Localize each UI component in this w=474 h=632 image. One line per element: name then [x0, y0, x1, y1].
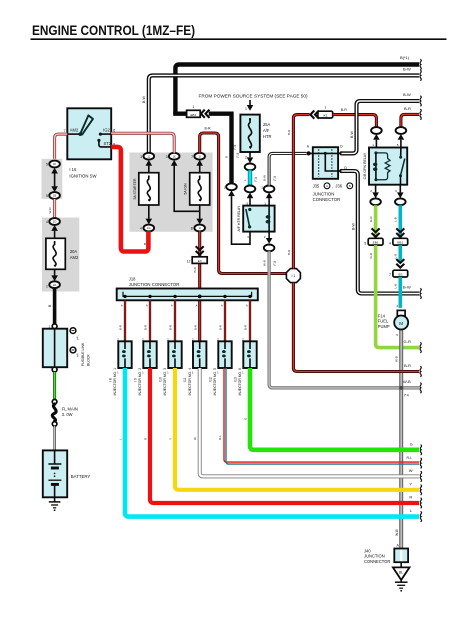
svg-text:R-L: R-L [407, 456, 413, 460]
svg-text:L-B: L-B [394, 217, 398, 222]
svg-text:A: A [196, 304, 198, 308]
gray harness box left upper [42, 159, 63, 199]
svg-text:L-B: L-B [394, 284, 398, 289]
svg-text:B-R: B-R [193, 325, 197, 330]
svg-text:1: 1 [245, 107, 247, 111]
svg-text:5: 5 [396, 333, 398, 337]
svg-text:AM2: AM2 [70, 127, 79, 132]
svg-text:(*1): (*1) [273, 261, 277, 266]
ground below battery [49, 497, 61, 511]
labels J35 J36 junction connector [313, 183, 353, 202]
svg-text:2: 2 [245, 156, 247, 160]
svg-text:B-W: B-W [403, 92, 411, 97]
svg-text:5A STARTER: 5A STARTER [133, 178, 137, 200]
wire B-R drop to injector No.4 [192, 304, 198, 342]
svg-text:2D: 2D [53, 220, 57, 224]
injector No.4 (I11) [183, 341, 206, 395]
junction connector J18 bus bar [117, 289, 258, 301]
svg-text:1: 1 [264, 202, 266, 206]
svg-text:FROM POWER SOURCE SYSTEM (SEE: FROM POWER SOURCE SYSTEM (SEE PAGE 50) [199, 94, 308, 99]
svg-text:W: W [409, 468, 413, 473]
svg-text:IG2: IG2 [103, 128, 110, 133]
svg-text:L-B: L-B [394, 254, 398, 259]
svg-text:W-B: W-B [403, 379, 411, 384]
wire B-R from 5A IGN bottom through E3 to J18 and injector 4 [193, 231, 204, 341]
svg-text:I 9: I 9 [133, 378, 137, 382]
relay C/B OPN RELAY [363, 148, 407, 185]
wire W-R from AM2 to left column [55, 134, 68, 161]
svg-text:IK1: IK1 [323, 114, 328, 118]
title ENGINE CONTROL (1MZ-FE) [31, 23, 447, 39]
wire B-W from power source to right edge and down to 5A STARTER fuse [142, 66, 421, 153]
svg-text:8: 8 [191, 227, 193, 231]
svg-text:B(*1): B(*1) [400, 55, 410, 60]
connector 8 (5A IGN bottom) [191, 219, 205, 232]
ground triangle BL [393, 562, 410, 591]
svg-text:EB1: EB1 [373, 241, 379, 245]
wire B thick to fusible link block [48, 288, 54, 324]
connector 1K [46, 161, 60, 174]
svg-text:(*1): (*1) [273, 176, 277, 181]
wire B-R main vertical from IK1 corner to I1 [287, 115, 310, 269]
svg-text:C/B OPN RELAY: C/B OPN RELAY [363, 152, 367, 179]
wire thick B from EB1 left segment [175, 112, 187, 114]
svg-text:EB1: EB1 [190, 113, 196, 117]
fuse 5A STARTER [133, 166, 159, 219]
svg-text:B-R: B-R [205, 127, 212, 131]
wire B-W from J35/J36 down to right edge [341, 171, 421, 299]
wire to battery [53, 426, 55, 450]
svg-text:Y: Y [409, 481, 412, 486]
injector No.5 (I12) [208, 341, 231, 395]
fusible link FL MAIN 3.0W [52, 399, 78, 426]
svg-text:B-R: B-R [119, 325, 123, 330]
svg-text:ST2: ST2 [103, 141, 111, 146]
svg-text:3. 0W: 3. 0W [62, 412, 73, 417]
svg-text:B-W: B-W [350, 131, 354, 139]
svg-text:1G: 1G [147, 226, 151, 230]
svg-text:CONNECTOR: CONNECTOR [364, 559, 390, 564]
svg-text:5: 5 [46, 163, 48, 167]
splice I1 octagon [286, 269, 300, 283]
svg-text:A: A [146, 304, 148, 308]
fuse 30A AM2 [46, 231, 79, 276]
svg-text:A: A [246, 304, 248, 308]
svg-text:1K: 1K [172, 154, 176, 158]
svg-text:B-R: B-R [287, 129, 291, 135]
ignition switch I16 [64, 108, 116, 178]
svg-text:12: 12 [187, 260, 191, 264]
svg-text:BATTERY: BATTERY [71, 474, 91, 479]
svg-text:30A: 30A [70, 249, 78, 254]
svg-text:G: G [410, 441, 413, 446]
svg-text:ENGINE CONTROL (1MZ–FE): ENGINE CONTROL (1MZ–FE) [32, 23, 195, 38]
svg-text:B: B [225, 156, 229, 158]
wire W from injector No.4 to right edge [193, 368, 421, 482]
connector E3 [187, 257, 208, 264]
svg-text:A: A [326, 184, 328, 188]
svg-text:7: 7 [324, 106, 326, 110]
svg-text:A: A [171, 304, 173, 308]
svg-text:R-L: R-L [218, 435, 222, 440]
connector 2A [46, 275, 60, 288]
wire B-R from I1 splice to right edge [293, 283, 421, 377]
svg-text:W-B: W-B [395, 356, 399, 362]
svg-text:#4 ,: #4 , [76, 335, 80, 340]
connector pair on A/F relay coil top wire [261, 185, 274, 205]
wire black between connectors [54, 174, 56, 187]
svg-text:B-R: B-R [193, 266, 197, 272]
chevrons from power source at EB1 [201, 110, 210, 118]
svg-text:I11: I11 [183, 377, 187, 382]
junction connector J18 label [129, 276, 180, 287]
connector pair below relay left [370, 185, 381, 206]
svg-text:3: 3 [140, 155, 142, 159]
wire B hook into A/F HTR relay pin 3 [232, 196, 251, 244]
connector pair above A/F HTR relay [245, 186, 256, 206]
wire B-R drop to injector No.2 [142, 300, 150, 341]
wire B-R drop to injector No.5 [217, 300, 225, 341]
svg-text:B-W: B-W [351, 223, 355, 231]
chevrons at IK1 [310, 111, 319, 119]
svg-text:M: M [399, 321, 403, 326]
svg-text:BL: BL [399, 570, 403, 574]
svg-text:B-W: B-W [142, 96, 146, 104]
svg-text:(*1): (*1) [253, 177, 257, 182]
wire B-R from IK1 to C/B OPN relay coil pin [333, 108, 377, 127]
connector pair below 25A fuse [245, 152, 256, 170]
wire R-L from injector No.5 to right edge [218, 368, 422, 468]
svg-text:B-W: B-W [403, 285, 411, 290]
svg-text:1: 1 [192, 105, 194, 109]
junction connector J40 [364, 548, 408, 563]
svg-text:1I: 1I [199, 154, 202, 158]
svg-text:Y: Y [168, 438, 172, 440]
wire B-R from 5A IGN top to I1 splice [200, 127, 287, 274]
svg-text:A: A [121, 304, 123, 308]
wire B-R from C/B OPN relay contact to right edge [401, 106, 421, 127]
svg-text:1I: 1I [199, 226, 202, 230]
relay A/F HTR RELAY [237, 202, 274, 239]
wire G-R from C/B OPN relay through EB1 to right edge [364, 205, 421, 353]
svg-text:G-R: G-R [369, 252, 373, 258]
svg-text:G-R: G-R [404, 339, 411, 344]
svg-text:A: A [221, 304, 223, 308]
junction connector J35/J36 [307, 145, 348, 179]
svg-text:I 16: I 16 [69, 167, 77, 172]
svg-text:B-R: B-R [341, 108, 348, 112]
svg-text:FUSIBLE LINK: FUSIBLE LINK [81, 342, 85, 366]
wire W-R to AM2 fuse block [48, 199, 55, 218]
svg-text:2: 2 [264, 235, 266, 239]
wire L (*1) short blue segment [243, 170, 257, 185]
connector EB1 (power source) [187, 105, 201, 117]
svg-text:25A: 25A [263, 122, 271, 127]
svg-text:,: , [332, 183, 333, 188]
svg-text:W-B: W-B [263, 260, 267, 266]
terminal circle top of fusible link block [52, 324, 57, 329]
svg-text:L: L [243, 179, 247, 181]
svg-text:W-B: W-B [395, 529, 399, 536]
svg-text:BLOCK: BLOCK [87, 353, 91, 366]
svg-text:1: 1 [46, 284, 48, 288]
svg-text:B-W: B-W [403, 66, 411, 71]
wire W-R from IG2 to middle fusebox connector [111, 133, 174, 153]
terminal circle bottom of fusible link block [52, 367, 57, 372]
wire G from injector No.6 to right edge [243, 368, 421, 455]
gray harness box left lower [42, 218, 79, 292]
injector No.1 (I 8) [108, 341, 131, 395]
svg-text:A/F: A/F [263, 128, 270, 133]
svg-text:B-R: B-R [169, 325, 173, 330]
svg-text:E3: E3 [198, 259, 202, 263]
fuel pump F14 [378, 310, 408, 336]
wire W-B from A/F HTR relay to right edge [263, 251, 422, 396]
svg-text:B: B [349, 184, 351, 188]
injector No.6 (I13) [233, 341, 256, 395]
svg-text:3: 3 [395, 189, 397, 193]
wire green to FL MAIN [53, 372, 56, 399]
svg-text:2: 2 [261, 185, 263, 189]
svg-text:4: 4 [46, 220, 48, 224]
svg-text:B-R: B-R [404, 106, 411, 111]
connector IK1 [318, 106, 333, 118]
svg-text:5: 5 [246, 202, 248, 206]
injector No.2 (I 9) [133, 341, 156, 395]
svg-text:2: 2 [370, 189, 372, 193]
wire B-R drop to injector No.1 [117, 300, 125, 341]
battery [43, 450, 91, 497]
svg-text:3: 3 [247, 235, 249, 239]
wire B-R drop to injector No.6 [242, 300, 250, 341]
svg-text:4: 4 [396, 304, 398, 308]
svg-text:AM2: AM2 [70, 255, 79, 260]
svg-text:1: 1 [372, 143, 374, 147]
svg-text:J18: J18 [129, 276, 136, 281]
connector 1K (middle) [166, 153, 180, 166]
fusible link block [43, 328, 91, 368]
svg-text:(*1): (*1) [404, 393, 409, 397]
svg-text:5: 5 [364, 241, 366, 245]
svg-text:CONNECTOR: CONNECTOR [313, 197, 341, 202]
wire B(*1) thick black from EB1 up and to right edge [175, 55, 421, 114]
svg-text:3: 3 [166, 155, 168, 159]
svg-text:A/F HTR RELAY: A/F HTR RELAY [237, 205, 241, 231]
connector pair C/B OPN relay contact pin [396, 127, 407, 147]
connector pair below A/F HTR relay coil [264, 232, 275, 252]
svg-text:7: 7 [191, 155, 193, 159]
wire L from injector No.1 to right edge [118, 368, 421, 522]
injector No.3 (I10) [158, 341, 181, 395]
connector 1I (5A IGN top) [191, 153, 205, 166]
svg-text:I10: I10 [158, 377, 162, 382]
svg-text:5: 5 [46, 194, 48, 198]
svg-text:I 1: I 1 [291, 274, 295, 278]
connector pair C/B OPN relay coil pin [371, 127, 382, 147]
connector 1B [46, 186, 60, 199]
svg-text:1B: 1B [53, 194, 57, 198]
svg-text:HTR: HTR [263, 134, 271, 139]
svg-text:B-R: B-R [144, 325, 148, 330]
wire B-R drop to injector No.3 [167, 300, 175, 341]
svg-text:(*1): (*1) [232, 145, 236, 150]
svg-text:B-R: B-R [244, 325, 248, 330]
gray fuse box [129, 153, 212, 232]
svg-text:IGNITION SW: IGNITION SW [69, 174, 97, 179]
svg-text:2: 2 [224, 185, 226, 189]
junction dot W-B wires [399, 386, 403, 390]
svg-text:JUNCTION: JUNCTION [313, 191, 335, 196]
svg-text:B-R: B-R [219, 325, 223, 330]
svg-text:B-R: B-R [287, 249, 291, 255]
svg-text:W: W [193, 437, 197, 440]
wire from middle connector joining 5A IGN output [174, 166, 200, 212]
wire B-W from J35/J36 up to right edge [341, 92, 421, 153]
svg-text:L: L [118, 438, 122, 440]
svg-text:(*1): (*1) [236, 153, 240, 158]
svg-text:R: R [409, 495, 412, 500]
svg-text:J35: J35 [313, 183, 320, 188]
svg-text:I 8: I 8 [108, 378, 112, 382]
svg-text:FL MAIN: FL MAIN [62, 407, 78, 412]
svg-text:ID1: ID1 [398, 273, 403, 277]
svg-text:W-R: W-R [48, 207, 52, 214]
wire W-B vertical from fuel pump down to J40 [395, 330, 402, 549]
svg-text:1K: 1K [53, 162, 57, 166]
connector 1J (5A STARTER top) [140, 153, 154, 166]
wire R from injector No.2 to right edge [143, 368, 421, 508]
svg-text:JUNCTION CONNECTOR: JUNCTION CONNECTOR [129, 282, 180, 287]
svg-text:B-R: B-R [404, 363, 411, 368]
wire B-W from A/F relay coil to J35/J36 [262, 153, 306, 185]
connector pair below relay right [395, 185, 406, 206]
svg-text:B-W: B-W [262, 175, 266, 181]
svg-text:5A IGN: 5A IGN [184, 183, 188, 195]
wire thick B from EB1 to A/F HTR relay branch [209, 114, 232, 184]
svg-text:G-R: G-R [369, 216, 373, 222]
svg-text:4: 4 [389, 241, 391, 245]
svg-text:I13: I13 [233, 377, 237, 382]
svg-text:7: 7 [64, 129, 66, 133]
svg-text:PUMP: PUMP [378, 324, 390, 329]
svg-text:4: 4 [140, 227, 142, 231]
connector 2D [46, 218, 60, 231]
svg-text:EB1: EB1 [397, 241, 403, 245]
wire Y from injector No.3 to right edge [168, 368, 421, 495]
connector pair on thick B wire [224, 183, 237, 196]
connector 4 (5A STARTER bottom) [140, 219, 154, 232]
svg-text:#4: #4 [76, 353, 80, 357]
svg-text:I12: I12 [208, 377, 212, 382]
svg-text:J36: J36 [335, 183, 342, 188]
svg-text:7: 7 [389, 273, 391, 277]
fuse 5A IGN [184, 166, 210, 219]
fuse 25A A/F HTR [240, 115, 271, 152]
wire L-B from C/B OPN relay through EB1 and ID1 to fuel pump [389, 205, 408, 308]
feed arrow into 25A A/F HTR fuse [232, 100, 253, 150]
svg-text:5: 5 [397, 143, 399, 147]
svg-text:2A: 2A [53, 283, 57, 287]
wire R thick from ST2 to 5A STARTER fuse [111, 147, 148, 252]
